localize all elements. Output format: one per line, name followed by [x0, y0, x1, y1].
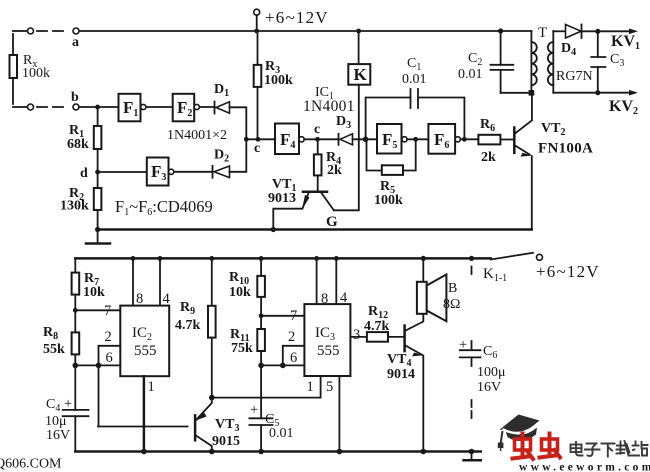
- ground bottom right: [471, 452, 473, 460]
- svg-text:555: 555: [317, 343, 340, 359]
- svg-text:G: G: [326, 214, 338, 230]
- svg-text:D1: D1: [214, 82, 229, 99]
- svg-text:T: T: [538, 25, 547, 41]
- resistor R5 loop: [367, 141, 416, 171]
- wire: Rx bottom to terminal: [13, 106, 27, 108]
- svg-text:c: c: [314, 122, 320, 137]
- wire: D2 to node c riser: [230, 139, 247, 172]
- svg-text:100k: 100k: [374, 193, 403, 208]
- junction: R3 bottom at c: [256, 137, 261, 142]
- resistor R10: [260, 258, 262, 276]
- svg-text:D2: D2: [214, 148, 229, 165]
- wire: secondary bottom to KV2 arrow: [553, 92, 634, 94]
- transistor VT2: [513, 128, 516, 153]
- logo text dianzi xiazaizhan: [571, 441, 648, 457]
- svg-text:C1: C1: [407, 56, 421, 73]
- svg-text:6: 6: [290, 350, 297, 366]
- svg-text:100k: 100k: [264, 73, 293, 88]
- IC2 555: [120, 306, 169, 377]
- capacitor C1 loop: [366, 98, 465, 140]
- svg-text:D3: D3: [336, 114, 351, 131]
- wire: bottom section ground rail: [75, 450, 481, 453]
- svg-text:+6~12V: +6~12V: [265, 8, 329, 27]
- wire: bottom section supply rail: [75, 257, 490, 260]
- wire: F6 to R6: [460, 138, 478, 140]
- svg-text:VT3: VT3: [215, 417, 239, 434]
- svg-text:4: 4: [163, 291, 171, 307]
- junction: R8 bottom node: [73, 363, 79, 369]
- svg-text:b: b: [71, 90, 79, 105]
- IC3 555: [304, 304, 350, 376]
- junction: KV1 node: [595, 29, 600, 34]
- svg-text:K: K: [354, 65, 368, 84]
- wire: b to F1 input: [79, 106, 119, 108]
- inverter F4: [275, 124, 299, 155]
- node a terminal: [73, 28, 79, 34]
- svg-text:9014: 9014: [387, 367, 415, 382]
- svg-text:FN100A: FN100A: [538, 141, 593, 157]
- wire: IC2 pin 2: [99, 346, 121, 427]
- transistor VT1: [303, 190, 327, 193]
- wire: C2 bottom to transformer: [501, 92, 532, 94]
- svg-text:75k: 75k: [231, 341, 253, 356]
- svg-text:1N4001×2: 1N4001×2: [167, 128, 227, 143]
- svg-text:K1-1: K1-1: [483, 266, 507, 284]
- wire: IC3 pin 2: [283, 346, 305, 366]
- svg-text:555: 555: [134, 343, 157, 359]
- svg-text:68k: 68k: [67, 137, 89, 152]
- junction: F5 input node: [363, 137, 369, 143]
- svg-text:0.01: 0.01: [269, 426, 294, 441]
- wire: IC3 pin 8: [316, 258, 318, 304]
- wire: dashed link top: [37, 30, 63, 32]
- svg-text:KV1: KV1: [611, 33, 640, 52]
- wire: R8 bottom to pin 2-6 tie: [75, 364, 98, 366]
- power terminal +6~12V: [254, 9, 260, 15]
- svg-text:+: +: [64, 396, 72, 412]
- transformer T primary: [530, 31, 532, 93]
- svg-text:Q606.COM: Q606.COM: [0, 457, 62, 472]
- svg-text:+6~12V: +6~12V: [536, 262, 600, 281]
- junction: C6 top: [469, 256, 474, 261]
- wire: left rail down from supply: [74, 258, 76, 272]
- transistor VT3: [194, 415, 197, 440]
- resistor Rx: [10, 55, 18, 78]
- capacitor C2: [500, 31, 502, 93]
- svg-text:8: 8: [321, 291, 328, 307]
- svg-text:2: 2: [288, 329, 295, 345]
- svg-text:4: 4: [340, 290, 348, 306]
- diode D4: [566, 25, 582, 39]
- svg-text:6: 6: [106, 350, 113, 366]
- junction: KV2 node: [595, 90, 600, 95]
- svg-text:3: 3: [353, 327, 360, 343]
- svg-text:8Ω: 8Ω: [443, 297, 460, 312]
- wire: tie to VT3 base: [98, 426, 188, 428]
- node d: [95, 170, 100, 175]
- resistor R8: [72, 332, 80, 354]
- speaker B: [422, 258, 424, 281]
- svg-text:a: a: [72, 35, 79, 50]
- terminal: left bottom: [28, 104, 34, 110]
- wire: F5 to F6: [407, 138, 428, 140]
- resistor R11: [257, 329, 265, 351]
- svg-text:www.eeworm.com: www.eeworm.com: [519, 462, 650, 472]
- wire: d to F3 input: [100, 171, 147, 173]
- wire: F4 to D3: [304, 138, 338, 140]
- wire: left branch from Rx top: [13, 30, 27, 32]
- svg-text:R8: R8: [43, 325, 58, 342]
- svg-text:9015: 9015: [212, 434, 240, 449]
- svg-text:16V: 16V: [477, 380, 501, 395]
- svg-text:10k: 10k: [229, 285, 251, 300]
- relay K: [358, 31, 360, 64]
- junction: F5 output node: [413, 137, 418, 142]
- junction: R11 bottom node: [258, 363, 264, 369]
- inverter F6: [428, 124, 455, 154]
- resistor R3: [257, 31, 259, 139]
- svg-text:KV2: KV2: [609, 98, 638, 117]
- svg-text:2: 2: [105, 329, 112, 345]
- resistor R12: [367, 332, 388, 342]
- svg-text:55k: 55k: [43, 342, 65, 357]
- svg-text:7: 7: [290, 308, 297, 324]
- wire: F3 to D2: [174, 171, 213, 173]
- svg-text:C4: C4: [46, 397, 60, 414]
- svg-text:100k: 100k: [22, 66, 50, 81]
- wire: K bottom to VT1 collector: [334, 85, 359, 211]
- svg-text:C3: C3: [610, 52, 624, 69]
- svg-text:R6: R6: [480, 117, 495, 134]
- resistor R1: [97, 107, 99, 126]
- wire: IC2 pin 6: [99, 364, 121, 366]
- svg-text:B: B: [448, 281, 457, 296]
- resistor R7: [72, 273, 80, 295]
- svg-text:10k: 10k: [83, 285, 105, 300]
- svg-text:7: 7: [104, 303, 111, 319]
- wire: G bus: [98, 228, 532, 231]
- svg-text:8: 8: [136, 291, 143, 307]
- svg-text:1N4001: 1N4001: [303, 98, 355, 115]
- svg-text:+: +: [250, 402, 258, 418]
- svg-text:130k: 130k: [60, 199, 89, 214]
- wire: IC3 pin 4: [335, 258, 337, 304]
- junction: b node: [95, 105, 100, 110]
- inverter F5: [377, 124, 402, 154]
- svg-text:c: c: [254, 141, 260, 156]
- junction: F6 output node: [462, 137, 467, 142]
- svg-text:1: 1: [148, 379, 155, 395]
- wire: IC2 pin 1: [143, 376, 146, 451]
- svg-text:4.7k: 4.7k: [364, 319, 390, 334]
- svg-text:C6: C6: [483, 344, 497, 361]
- inverter F3: [147, 158, 169, 186]
- switch K1-1: [491, 253, 533, 260]
- svg-text:+: +: [459, 337, 467, 353]
- logo graduation cap: [498, 415, 540, 452]
- wire: R11 bottom to pin 2-6 tie IC3: [261, 364, 283, 366]
- node b terminal: [73, 104, 79, 110]
- svg-text:D4: D4: [561, 41, 576, 58]
- wire: node c to F4: [246, 138, 275, 140]
- capacitor C4: [63, 410, 89, 416]
- inverter F2: [173, 94, 195, 122]
- wire: F2 to D1: [200, 106, 215, 108]
- wire: D1 to node c: [230, 107, 247, 139]
- ground: [97, 230, 99, 243]
- wire: IC2 pin 8: [132, 258, 134, 305]
- resistor R6: [478, 135, 500, 145]
- diode D2: [212, 166, 214, 178]
- wire: emitter node to IC3 pin 1: [212, 376, 321, 398]
- svg-text:C2: C2: [468, 51, 482, 68]
- svg-text:2k: 2k: [327, 163, 342, 178]
- svg-text:d: d: [80, 166, 88, 181]
- svg-text:0.01: 0.01: [458, 67, 483, 82]
- wire: IC3 pin 3 to R12: [350, 336, 367, 338]
- transistor VT4: [403, 326, 406, 352]
- svg-text:2k: 2k: [481, 150, 496, 165]
- wire: pin 7 of IC2: [75, 309, 120, 311]
- terminal: left top: [28, 28, 34, 34]
- wire: F1 to F2: [146, 106, 173, 108]
- diode D3: [338, 134, 340, 145]
- svg-text:VT2: VT2: [541, 121, 565, 138]
- wire: D4 to KV1 arrow: [582, 30, 635, 32]
- svg-text:1: 1: [307, 379, 314, 395]
- svg-text:5: 5: [326, 379, 333, 395]
- wire: D3 to F5 input: [353, 138, 378, 140]
- wire: IC2 pin 4: [159, 258, 161, 305]
- capacitor C3: [597, 31, 599, 92]
- wire: pin 7 of IC3: [261, 315, 304, 317]
- svg-text:F1~F6:CD4069: F1~F6:CD4069: [115, 197, 213, 218]
- junction: R2 to G bus: [95, 227, 100, 232]
- svg-text:9013: 9013: [268, 191, 296, 206]
- wire: dashed link bottom: [37, 106, 63, 108]
- svg-text:100μ: 100μ: [477, 365, 506, 380]
- wire: top supply bus a to transformer: [79, 30, 531, 32]
- resistor R4: [317, 139, 319, 191]
- capacitor C6: [471, 267, 473, 275]
- svg-text:RG7N: RG7N: [556, 69, 593, 84]
- logo text chongchong red: [513, 434, 561, 460]
- wire: IC3 pin 5: [338, 376, 340, 452]
- resistor R2: [97, 172, 99, 188]
- capacitor C5: [249, 418, 272, 425]
- junction: pin7 node: [73, 308, 78, 313]
- wire: secondary top to D4: [553, 30, 565, 32]
- svg-text:10μ: 10μ: [45, 414, 67, 429]
- junction: node c left: [244, 137, 249, 142]
- junction: node c2: [315, 137, 320, 142]
- svg-text:4.7k: 4.7k: [175, 318, 201, 333]
- inverter F1: [119, 94, 141, 122]
- junction: VT3 emitter node: [209, 395, 215, 401]
- svg-text:R9: R9: [180, 300, 195, 317]
- diode D1: [214, 102, 216, 114]
- svg-text:16V: 16V: [46, 428, 70, 443]
- wire: IC3 pin 6: [283, 364, 305, 366]
- resistor R9: [211, 258, 213, 305]
- transformer T secondary: [552, 31, 554, 93]
- junction: pin7 node IC3: [259, 313, 264, 318]
- svg-text:0.01: 0.01: [402, 72, 427, 87]
